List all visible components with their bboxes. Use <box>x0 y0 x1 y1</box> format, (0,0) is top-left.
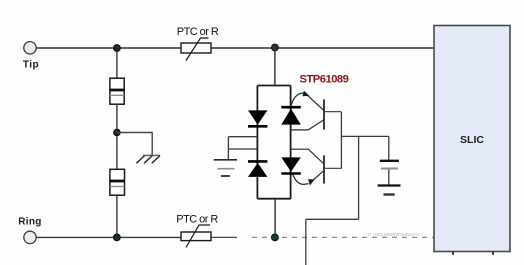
wire: gate horizontal to capacitor <box>341 135 388 137</box>
svg-text:rr raccaawrwraawcra: rr raccaawrwraawcra <box>368 232 420 238</box>
SLIC block <box>434 26 510 252</box>
svg-text:STP61089: STP61089 <box>300 74 349 86</box>
fuse/resistor box 2 <box>110 169 125 195</box>
fuse/resistor box 1 <box>110 78 124 104</box>
diode D3 top-right (cathode up) <box>281 107 301 124</box>
wire: bridge bottom tap to Ring rail <box>274 199 276 238</box>
wire: left branch vertical top (Tip to box1) <box>116 48 118 78</box>
SLIC bottom pin 1 <box>452 252 454 256</box>
transistor Q1 emitter arrowhead <box>303 91 310 97</box>
svg-text:SLIC: SLIC <box>460 134 484 146</box>
wire: gate bottom horizontal <box>306 218 359 220</box>
chassis ground symbol <box>136 155 160 163</box>
junction dot on left branch <box>114 129 121 136</box>
wire: left rail mid tap lower to ground <box>228 148 257 150</box>
svg-text:Tip: Tip <box>23 59 39 70</box>
transistor Q1 (top, PNP-style) base bar <box>323 99 325 129</box>
wire: left branch vertical bottom (box2 to Ring) <box>116 195 118 237</box>
diode D4 bottom-right (cathode down) <box>281 157 301 173</box>
wire: Q2 base lead <box>324 167 342 169</box>
wire: Tip rail right of PTC to SLIC <box>211 47 434 49</box>
transistor Q1 emitter curve from D3 cathode <box>291 93 306 107</box>
transistor Q2 (bottom, PNP-style) base bar <box>323 155 325 183</box>
wire: bridge left rail <box>256 86 258 199</box>
terminal: Tip <box>24 42 36 54</box>
wire: gate drop vertical <box>358 136 360 219</box>
transistor Q2 emitter arrowhead <box>308 179 315 185</box>
wire: capacitor bottom lead <box>388 170 390 185</box>
wire: Ring rail dashed/faded to SLIC <box>252 236 434 238</box>
wire: capacitor top lead <box>388 136 390 159</box>
SLIC bottom pin 2 <box>492 252 494 256</box>
diode D1 top-left (cathode down) <box>248 110 267 126</box>
transistor Q2 emitter line into base bar <box>313 170 324 180</box>
wire: feed from Tip rail down to bridge <box>274 48 276 86</box>
capacitor C1 plates <box>380 161 399 169</box>
wire: Ring rail right of PTC (solid part) <box>211 236 237 238</box>
svg-text:Ring: Ring <box>18 217 41 228</box>
wire: Ring rail left <box>36 236 181 238</box>
wire: ground drop vertical <box>227 137 229 160</box>
wire: left branch vertical middle <box>116 104 118 169</box>
PTC resistor bottom: body <box>181 225 211 248</box>
transistor Q2 collector to right rail <box>291 149 324 164</box>
junction dot Tip x275 <box>271 44 278 51</box>
wire: stub to chassis ground <box>117 133 152 156</box>
junction dot Ring x275 <box>271 234 278 241</box>
terminal: Ring <box>24 231 36 243</box>
wire: bridge bottom edge <box>257 198 290 200</box>
svg-text:PTC or R: PTC or R <box>176 214 218 226</box>
wire: gate exit to bottom edge <box>305 219 307 265</box>
wire: bridge right rail <box>290 86 292 199</box>
transistor Q2 emitter curve from D4 cathode <box>293 174 309 184</box>
wire: Tip rail <box>36 47 181 49</box>
diode D2 bottom-left (cathode up) <box>248 161 267 177</box>
earth ground (bridge left) <box>214 160 237 176</box>
wire: bridge top edge <box>257 85 290 87</box>
wire: gate bus vertical joining Q1/Q2 bases <box>340 112 342 169</box>
wire: left rail mid tap upper to ground <box>228 136 257 138</box>
PTC resistor top: body <box>181 38 211 61</box>
wire: Q1 base lead <box>324 111 341 113</box>
junction dot Tip x117 <box>113 45 120 52</box>
transistor Q1 collector to right rail <box>291 120 324 130</box>
transistor Q1 emitter line into base bar <box>307 95 324 110</box>
junction dot Ring x117 <box>113 234 120 241</box>
svg-text:PTC or R: PTC or R <box>177 26 219 38</box>
earth ground (right, 2-bar) <box>378 186 401 195</box>
